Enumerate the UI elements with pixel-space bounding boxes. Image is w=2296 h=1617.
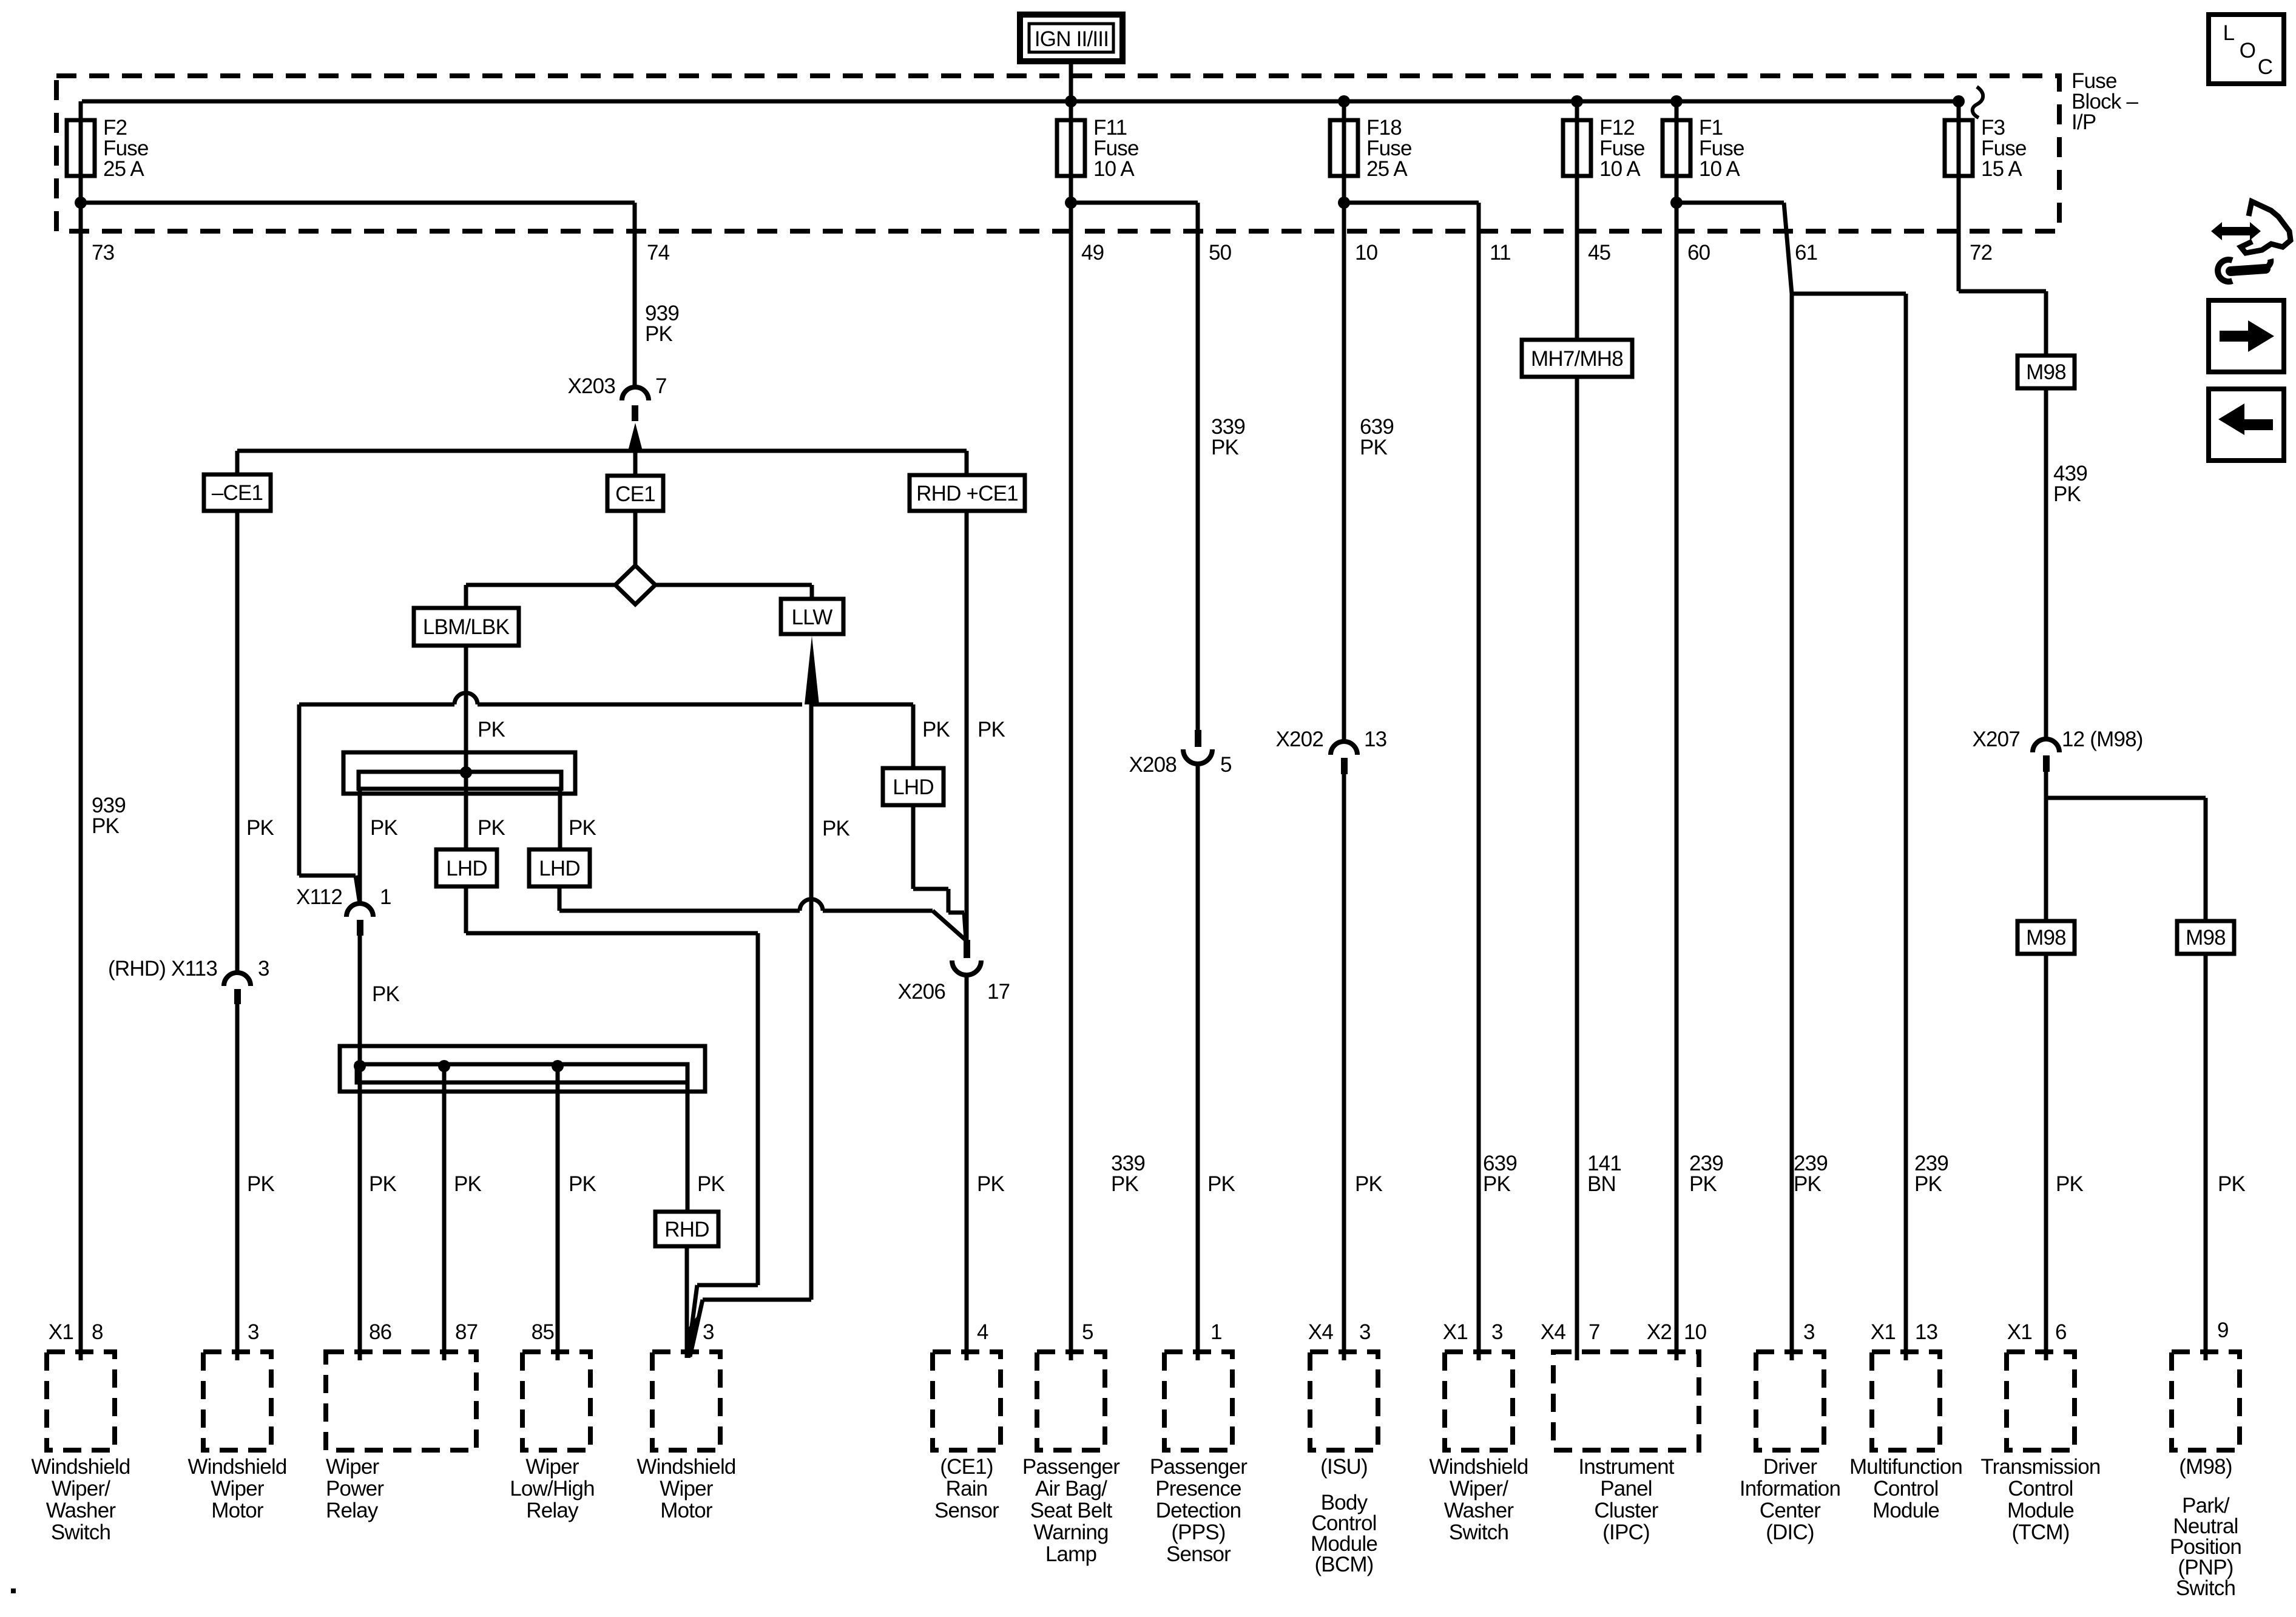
svg-text:RHD: RHD: [664, 1218, 709, 1241]
svg-text:25 A: 25 A: [103, 157, 144, 181]
svg-text:PK: PK: [247, 1172, 275, 1196]
svg-text:Washer: Washer: [46, 1499, 116, 1522]
svg-text:LLW: LLW: [792, 606, 833, 629]
svg-text:LHD: LHD: [893, 775, 934, 799]
svg-text:PK: PK: [1355, 1172, 1383, 1196]
svg-text:LHD: LHD: [446, 857, 487, 880]
svg-text:Driver: Driver: [1763, 1455, 1818, 1479]
svg-text:M98: M98: [2186, 926, 2226, 950]
svg-text:60: 60: [1687, 241, 1710, 265]
svg-text:PK: PK: [1111, 1172, 1139, 1196]
svg-text:Control: Control: [1873, 1477, 1938, 1501]
svg-text:3: 3: [1359, 1320, 1371, 1344]
svg-text:7: 7: [655, 374, 667, 398]
svg-text:Motor: Motor: [211, 1499, 264, 1522]
svg-text:Switch: Switch: [2176, 1576, 2235, 1600]
svg-text:17: 17: [987, 980, 1010, 1004]
svg-text:I/P: I/P: [2071, 110, 2096, 134]
svg-text:Windshield: Windshield: [636, 1455, 735, 1479]
svg-text:45: 45: [1588, 241, 1610, 265]
svg-text:Wiper: Wiper: [211, 1477, 265, 1501]
svg-text:PK: PK: [372, 982, 400, 1006]
svg-text:IGN II/III: IGN II/III: [1035, 27, 1109, 51]
svg-text:1: 1: [1210, 1320, 1222, 1344]
svg-text:15 A: 15 A: [1981, 157, 2022, 181]
svg-text:PK: PK: [1211, 436, 1239, 459]
svg-text:Washer: Washer: [1444, 1499, 1514, 1522]
svg-text:3: 3: [1803, 1320, 1815, 1344]
svg-text:10: 10: [1684, 1320, 1707, 1344]
svg-text:–CE1: –CE1: [212, 481, 263, 505]
svg-text:PK: PK: [92, 814, 120, 838]
svg-text:X2: X2: [1647, 1320, 1672, 1344]
svg-text:4: 4: [977, 1320, 988, 1344]
svg-text:Instrument: Instrument: [1578, 1455, 1674, 1479]
svg-text:(ISU): (ISU): [1320, 1455, 1368, 1479]
svg-text:X1: X1: [49, 1320, 73, 1344]
svg-text:Windshield: Windshield: [187, 1455, 286, 1479]
svg-text:Information: Information: [1740, 1477, 1840, 1501]
svg-text:61: 61: [1795, 241, 1817, 265]
svg-text:Relay: Relay: [526, 1499, 579, 1522]
svg-text:3: 3: [248, 1320, 259, 1344]
svg-text:O: O: [2240, 39, 2255, 62]
svg-text:10 A: 10 A: [1699, 157, 1740, 181]
svg-text:LBM/LBK: LBM/LBK: [423, 615, 510, 639]
svg-text:3: 3: [1491, 1320, 1503, 1344]
svg-text:PK: PK: [2218, 1172, 2246, 1196]
svg-text:(PPS): (PPS): [1171, 1521, 1225, 1544]
svg-text:M98: M98: [2026, 926, 2066, 950]
svg-text:PK: PK: [697, 1172, 725, 1196]
svg-text:CE1: CE1: [615, 482, 655, 506]
svg-text:13: 13: [1915, 1320, 1937, 1344]
svg-text:Sensor: Sensor: [934, 1499, 999, 1522]
svg-text:Panel: Panel: [1600, 1477, 1652, 1501]
svg-text:73: 73: [92, 241, 114, 265]
svg-text:3: 3: [258, 957, 269, 981]
svg-text:Module: Module: [1872, 1499, 1939, 1522]
svg-text:X207: X207: [1972, 727, 2020, 751]
svg-text:Wiper/: Wiper/: [52, 1477, 110, 1501]
svg-text:85: 85: [532, 1320, 554, 1344]
svg-text:49: 49: [1081, 241, 1104, 265]
svg-text:Control: Control: [2008, 1477, 2073, 1501]
svg-text:Transmission: Transmission: [1980, 1455, 2100, 1479]
svg-text:74: 74: [647, 241, 670, 265]
svg-text:PK: PK: [2056, 1172, 2084, 1196]
svg-text:Switch: Switch: [51, 1521, 110, 1544]
svg-text:Power: Power: [326, 1477, 384, 1501]
svg-text:PK: PK: [1689, 1172, 1717, 1196]
svg-text:PK: PK: [246, 816, 274, 840]
svg-text:13: 13: [1364, 727, 1386, 751]
svg-text:3: 3: [703, 1320, 714, 1344]
svg-text:Presence: Presence: [1155, 1477, 1241, 1501]
svg-text:86: 86: [369, 1320, 391, 1344]
svg-text:(M98): (M98): [2179, 1455, 2232, 1479]
svg-text:Windshield: Windshield: [31, 1455, 130, 1479]
svg-text:BN: BN: [1587, 1172, 1616, 1196]
svg-text:PK: PK: [1483, 1172, 1511, 1196]
svg-text:PK: PK: [1914, 1172, 1942, 1196]
svg-text:PK: PK: [478, 816, 505, 840]
svg-text:Seat Belt: Seat Belt: [1030, 1499, 1113, 1522]
svg-text:PK: PK: [645, 322, 673, 346]
svg-text:8: 8: [92, 1320, 103, 1344]
svg-text:X1: X1: [2007, 1320, 2032, 1344]
svg-text:C: C: [2258, 55, 2272, 79]
svg-text:6: 6: [2055, 1320, 2067, 1344]
svg-text:5: 5: [1082, 1320, 1093, 1344]
svg-text:PK: PK: [1794, 1172, 1822, 1196]
svg-text:X4: X4: [1541, 1320, 1566, 1344]
svg-text:Windshield: Windshield: [1429, 1455, 1528, 1479]
svg-text:X112: X112: [296, 885, 342, 909]
svg-text:PK: PK: [569, 816, 596, 840]
svg-text:5: 5: [1220, 753, 1232, 777]
svg-text:Low/High: Low/High: [510, 1477, 595, 1501]
svg-text:X206: X206: [897, 980, 945, 1004]
svg-text:(CE1): (CE1): [940, 1455, 993, 1479]
svg-text:7: 7: [1589, 1320, 1600, 1344]
svg-text:X1: X1: [1871, 1320, 1896, 1344]
svg-text:25 A: 25 A: [1366, 157, 1408, 181]
svg-text:PK: PK: [977, 1172, 1005, 1196]
svg-text:Wiper/: Wiper/: [1450, 1477, 1508, 1501]
svg-text:Sensor: Sensor: [1166, 1542, 1231, 1566]
svg-text:PK: PK: [922, 718, 950, 741]
svg-text:Multifunction: Multifunction: [1849, 1455, 1962, 1479]
svg-text:Detection: Detection: [1156, 1499, 1241, 1522]
svg-text:Rain: Rain: [946, 1477, 988, 1501]
svg-text:X1: X1: [1443, 1320, 1468, 1344]
svg-text:Module: Module: [2007, 1499, 2074, 1522]
svg-text:(BCM): (BCM): [1314, 1553, 1373, 1576]
svg-text:10: 10: [1355, 241, 1378, 265]
svg-text:10 A: 10 A: [1093, 157, 1135, 181]
svg-text:Lamp: Lamp: [1045, 1542, 1096, 1566]
svg-text:72: 72: [1970, 241, 1992, 265]
svg-text:Passenger: Passenger: [1150, 1455, 1248, 1479]
svg-text:PK: PK: [569, 1172, 596, 1196]
svg-text:Switch: Switch: [1449, 1521, 1508, 1544]
svg-text:MH7/MH8: MH7/MH8: [1531, 347, 1623, 371]
svg-text:Air Bag/: Air Bag/: [1035, 1477, 1107, 1501]
svg-text:RHD +CE1: RHD +CE1: [916, 482, 1018, 505]
svg-text:Relay: Relay: [326, 1499, 379, 1522]
svg-text:X4: X4: [1308, 1320, 1334, 1344]
svg-text:PK: PK: [1360, 436, 1388, 459]
svg-text:PK: PK: [977, 718, 1005, 741]
svg-text:L: L: [2223, 21, 2235, 45]
svg-text:Wiper: Wiper: [525, 1455, 579, 1479]
svg-text:(DIC): (DIC): [1766, 1521, 1814, 1544]
svg-text:Wiper: Wiper: [660, 1477, 714, 1501]
svg-text:LHD: LHD: [539, 857, 580, 880]
svg-text:PK: PK: [2053, 482, 2081, 506]
svg-text:PK: PK: [370, 816, 398, 840]
svg-text:11: 11: [1490, 241, 1511, 265]
svg-text:X208: X208: [1129, 753, 1177, 777]
svg-text:Cluster: Cluster: [1594, 1499, 1658, 1522]
svg-text:12 (M98): 12 (M98): [2062, 727, 2143, 751]
svg-text:Motor: Motor: [660, 1499, 713, 1522]
svg-text:1: 1: [380, 885, 391, 909]
svg-text:9: 9: [2217, 1318, 2229, 1342]
svg-text:M98: M98: [2026, 360, 2066, 384]
svg-text:X203: X203: [567, 374, 615, 398]
svg-text:(IPC): (IPC): [1602, 1521, 1650, 1544]
svg-text:Warning: Warning: [1033, 1521, 1108, 1544]
svg-text:PK: PK: [822, 817, 850, 840]
svg-text:PK: PK: [478, 718, 505, 741]
svg-text:Passenger: Passenger: [1022, 1455, 1120, 1479]
svg-text:10 A: 10 A: [1599, 157, 1641, 181]
svg-text:PK: PK: [369, 1172, 397, 1196]
svg-text:PK: PK: [1207, 1172, 1235, 1196]
svg-text:PK: PK: [454, 1172, 482, 1196]
svg-text:87: 87: [455, 1320, 478, 1344]
svg-text:Center: Center: [1760, 1499, 1821, 1522]
svg-text:(RHD) X113: (RHD) X113: [108, 957, 217, 981]
svg-text:50: 50: [1209, 241, 1232, 265]
svg-text:(TCM): (TCM): [2011, 1521, 2069, 1544]
svg-text:Wiper: Wiper: [326, 1455, 380, 1479]
svg-text:X202: X202: [1275, 727, 1323, 751]
